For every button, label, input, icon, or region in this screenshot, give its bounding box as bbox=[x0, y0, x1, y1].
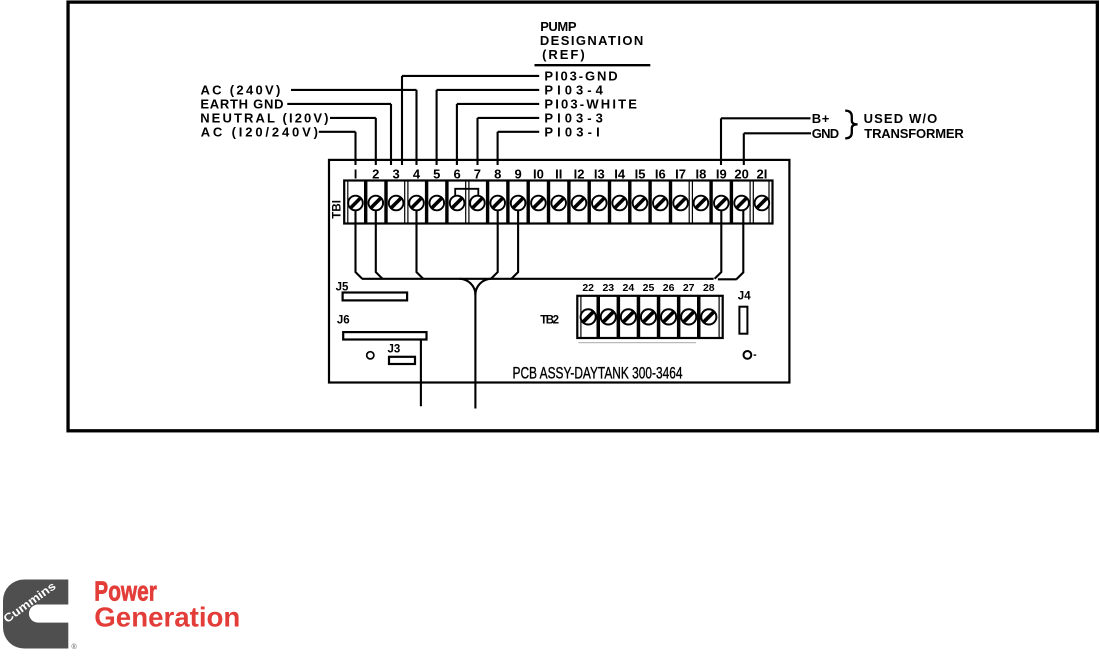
svg-text:I9: I9 bbox=[716, 166, 727, 181]
svg-text:J3: J3 bbox=[388, 344, 401, 356]
svg-text:J4: J4 bbox=[738, 290, 751, 302]
svg-text:J6: J6 bbox=[337, 315, 350, 327]
svg-text:PI03-4: PI03-4 bbox=[544, 83, 603, 98]
svg-text:26: 26 bbox=[663, 282, 675, 294]
svg-text:I: I bbox=[354, 166, 358, 181]
svg-text:3: 3 bbox=[392, 166, 399, 181]
svg-text:8: 8 bbox=[494, 166, 501, 181]
svg-text:®: ® bbox=[72, 643, 78, 651]
svg-text:II: II bbox=[555, 166, 562, 181]
svg-text:9: 9 bbox=[514, 166, 521, 181]
svg-text:AC (I20/240V): AC (I20/240V) bbox=[201, 125, 318, 140]
svg-text:B+: B+ bbox=[812, 111, 830, 126]
svg-text:27: 27 bbox=[683, 282, 695, 294]
svg-text:USED W/O: USED W/O bbox=[864, 111, 938, 126]
svg-text:(REF): (REF) bbox=[542, 47, 585, 62]
svg-text:PUMP: PUMP bbox=[540, 19, 577, 34]
svg-text:TBI: TBI bbox=[331, 200, 343, 219]
svg-text:PI03-WHITE: PI03-WHITE bbox=[544, 97, 637, 112]
svg-text:TB2: TB2 bbox=[540, 315, 559, 327]
svg-text:5: 5 bbox=[433, 166, 440, 181]
svg-text:GND: GND bbox=[812, 126, 839, 141]
svg-text:23: 23 bbox=[602, 282, 614, 294]
svg-text:2I: 2I bbox=[756, 166, 767, 181]
svg-text:I8: I8 bbox=[695, 166, 706, 181]
svg-text:I4: I4 bbox=[614, 166, 626, 181]
svg-text:EARTH GND: EARTH GND bbox=[200, 97, 283, 112]
svg-text:I3: I3 bbox=[594, 166, 605, 181]
svg-text:I6: I6 bbox=[655, 166, 666, 181]
svg-text:Generation: Generation bbox=[94, 602, 240, 633]
svg-text:AC (240V): AC (240V) bbox=[201, 83, 281, 98]
svg-text:PI03-I: PI03-I bbox=[544, 124, 599, 139]
svg-text:28: 28 bbox=[703, 282, 715, 294]
svg-text:J5: J5 bbox=[336, 282, 349, 294]
svg-text:NEUTRAL (I20V): NEUTRAL (I20V) bbox=[200, 111, 328, 126]
svg-text:I5: I5 bbox=[635, 166, 646, 181]
svg-text:I2: I2 bbox=[574, 166, 585, 181]
svg-text:PI03-GND: PI03-GND bbox=[544, 69, 617, 84]
svg-text:PI03-3: PI03-3 bbox=[544, 111, 603, 126]
svg-text:6: 6 bbox=[453, 166, 460, 181]
svg-text:PCB ASSY-DAYTANK 300-3464: PCB ASSY-DAYTANK 300-3464 bbox=[513, 363, 683, 382]
svg-text:I7: I7 bbox=[675, 166, 686, 181]
svg-text:4: 4 bbox=[413, 166, 421, 181]
svg-text:24: 24 bbox=[623, 282, 635, 294]
svg-text:20: 20 bbox=[734, 166, 748, 181]
svg-text:I0: I0 bbox=[533, 166, 544, 181]
svg-text:7: 7 bbox=[474, 166, 481, 181]
svg-text:2: 2 bbox=[372, 166, 379, 181]
svg-text:22: 22 bbox=[582, 282, 594, 294]
svg-text:25: 25 bbox=[643, 282, 655, 294]
svg-text:TRANSFORMER: TRANSFORMER bbox=[864, 126, 964, 141]
